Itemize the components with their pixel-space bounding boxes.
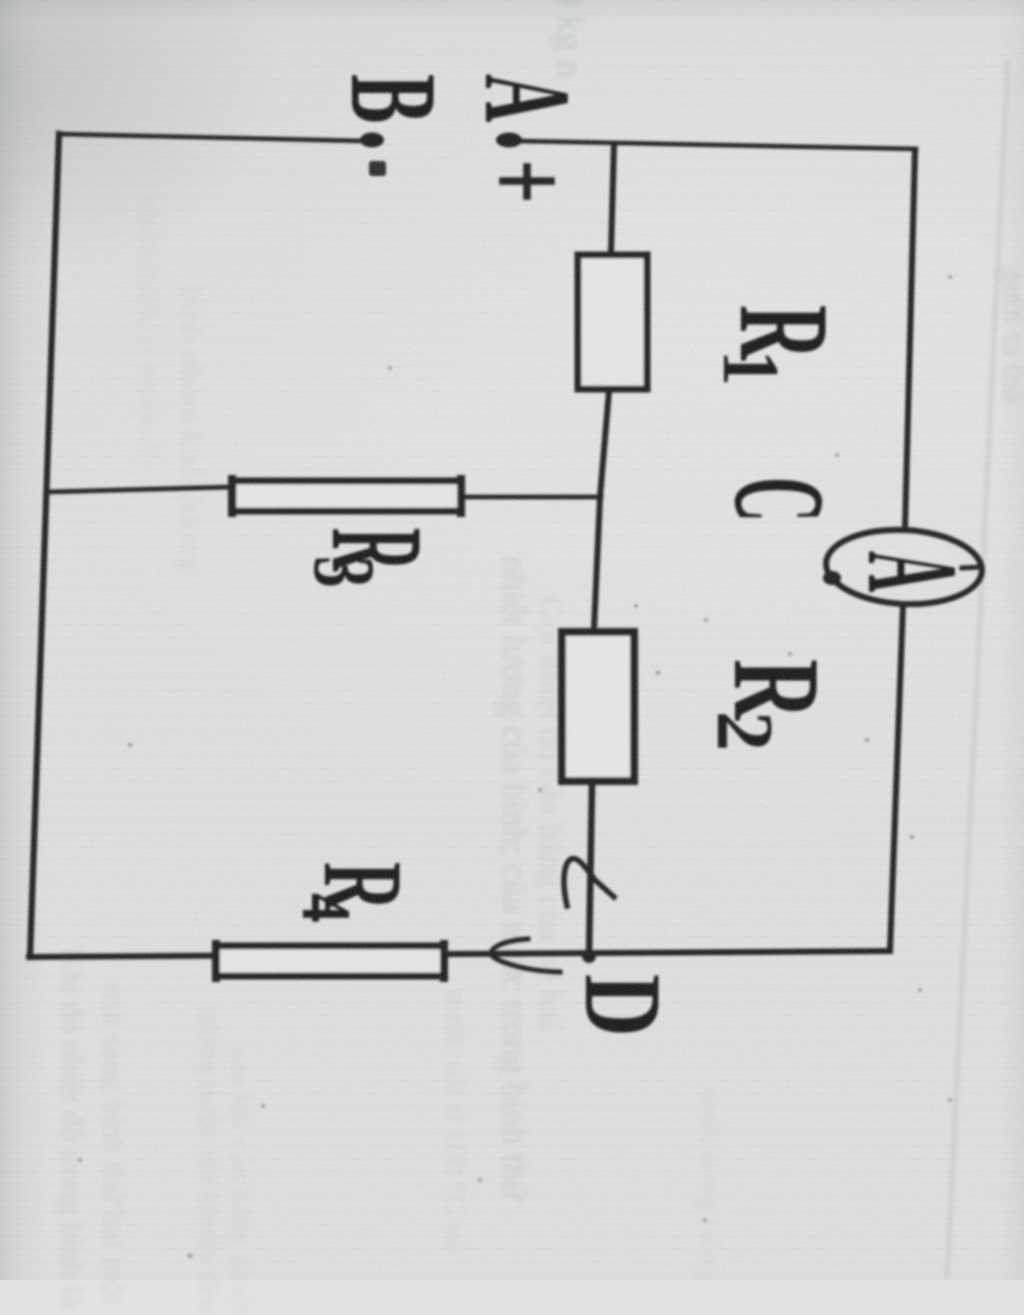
paper crease line at right (947, 60, 1008, 1280)
wire: R2 to node D (589, 784, 592, 957)
resistor R4 box end caps (216, 944, 444, 978)
wire: R3 to node C (464, 495, 601, 500)
ghost text right edge column (998, 266, 1024, 403)
wire: top-right segment from terminal A to top-right corner (521, 141, 916, 149)
label R1 (706, 305, 855, 386)
ghost text bottom-left col 1 (57, 948, 88, 1308)
paper specks (78, 275, 952, 1258)
terminal A plus sign (503, 167, 551, 196)
wire: right edge lower segment (ammeter to bottom-right corner) (890, 605, 903, 950)
ghost faint upper-left (134, 196, 166, 467)
label A (459, 74, 597, 122)
wire: terminal A to R1 (611, 144, 614, 252)
label B (324, 74, 461, 124)
resistor R4 box (216, 946, 444, 976)
ghost text bottom-left col 2 (99, 984, 130, 1305)
terminal B minus sign (369, 161, 386, 176)
resistor R3 box end caps (232, 479, 461, 513)
ghost text below R4 (441, 990, 472, 1253)
ghost text below D (694, 1084, 724, 1281)
wire: left edge of outer loop (30, 134, 59, 957)
wire: R1 to node C (600, 391, 609, 497)
ghost text bottom-left col 4 (226, 1046, 256, 1314)
ammeter ink blob left tip (823, 571, 841, 585)
wire: top-left segment from corner to terminal B (59, 134, 365, 141)
ghost text top blob (552, 0, 588, 78)
hand-drawn arrow on bottom wire near D (491, 939, 560, 972)
wire: R3 row from left edge to R3 (46, 487, 232, 492)
label R3 (295, 528, 449, 588)
label C (node C) (707, 477, 851, 522)
ghost text bottom-left col 3 (194, 1004, 224, 1315)
label R2 (700, 659, 845, 751)
ghost bleed-through text column 2 (533, 596, 566, 1029)
resistor R1 box (578, 255, 647, 389)
ghost faint mid-left (176, 286, 208, 572)
wire: node C to R2 (594, 497, 600, 629)
ammeter U1 letter A (841, 551, 985, 592)
label R4 (287, 862, 425, 923)
ammeter right overlap tick (962, 567, 980, 568)
node D junction blob (582, 949, 596, 963)
wire: right edge upper segment (corner to ammeter) (905, 150, 915, 529)
wire: bottom segment from corner to bottom-left corner (29, 951, 890, 957)
label D (node D) (562, 974, 683, 1037)
terminal A dot (496, 133, 522, 148)
ammeter U1 circle (824, 526, 984, 608)
resistor R2 box (562, 632, 634, 781)
hand-drawn squiggle on R2-D wire (564, 859, 614, 906)
terminal B dot (360, 133, 384, 148)
resistor R3 box (233, 481, 461, 511)
ghost bleed-through text column near R2/D (497, 556, 532, 1200)
